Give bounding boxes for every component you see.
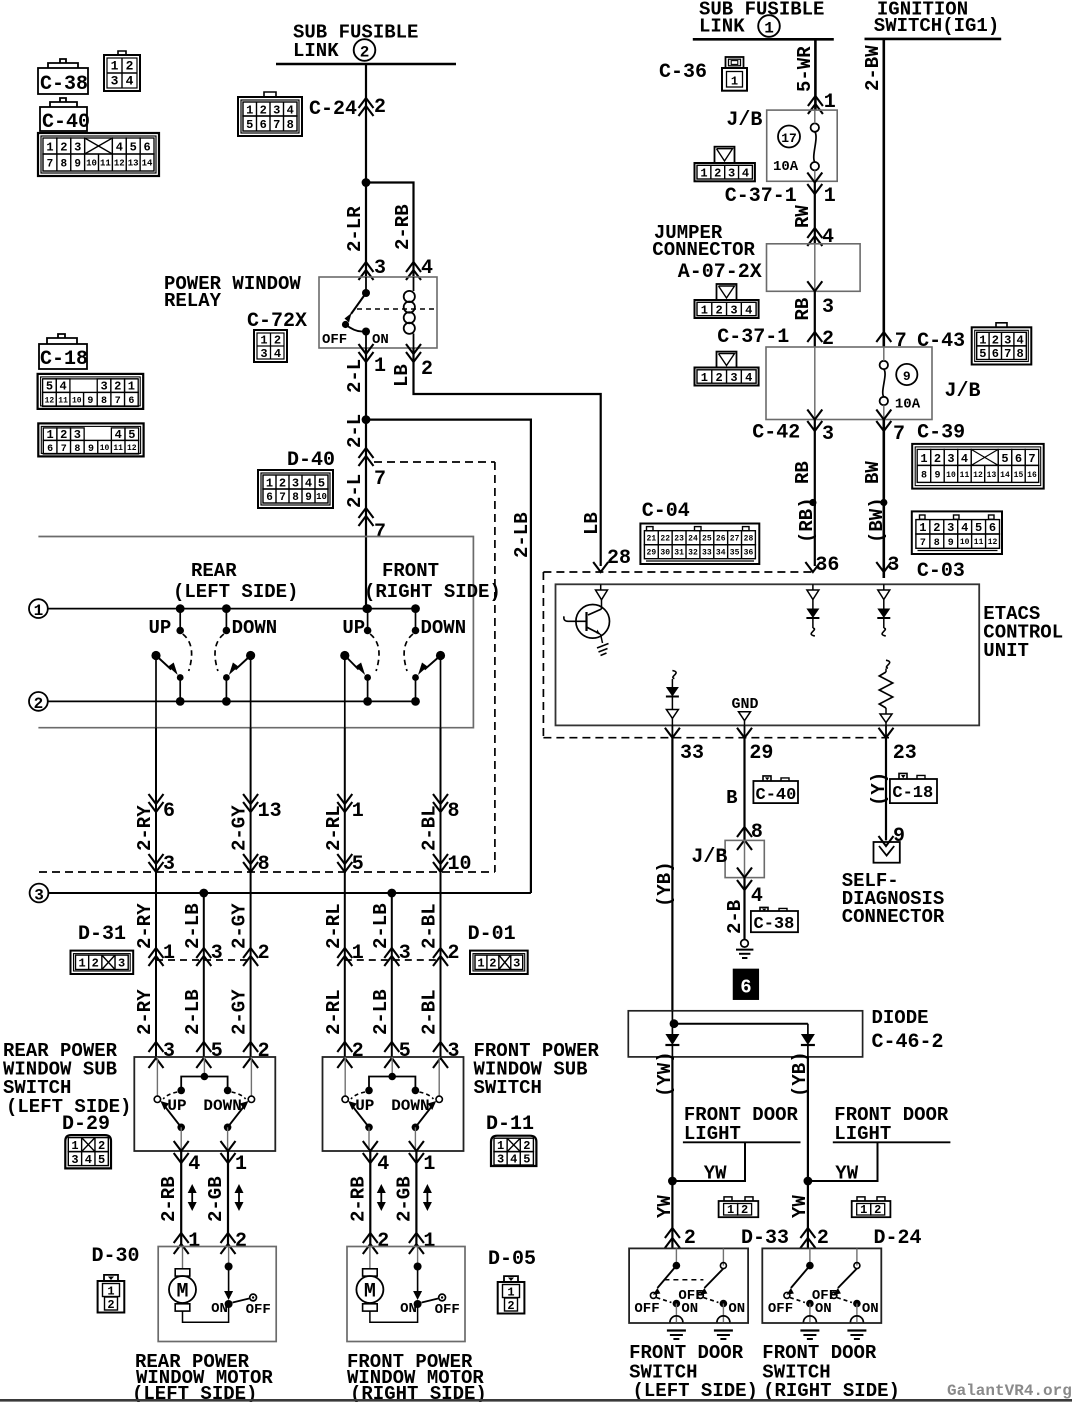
- svg-text:21: 21: [647, 535, 657, 544]
- label D-40: [287, 449, 335, 472]
- label D-05: [488, 1248, 536, 1271]
- wire 2-LB to sub switch: [391, 960, 393, 1057]
- node junction 2-L/2-LB: [362, 415, 371, 424]
- svg-text:31: 31: [674, 549, 684, 558]
- wire 2-BL to sub switch: [440, 960, 442, 1057]
- svg-text:D-30: D-30: [92, 1245, 140, 1268]
- wire 2-BL bus3 to D-31/D-01: [440, 893, 442, 960]
- front door light right lead: [808, 1142, 951, 1181]
- svg-text:5: 5: [352, 853, 364, 876]
- svg-text:1: 1: [701, 303, 708, 317]
- label D-30: [92, 1245, 140, 1268]
- svg-text:4: 4: [510, 1153, 517, 1167]
- svg-text:23: 23: [893, 742, 917, 765]
- svg-text:2: 2: [933, 521, 940, 535]
- label DIODE C-46-2: [872, 1007, 944, 1054]
- svg-text:2-GY: 2-GY: [229, 903, 251, 949]
- svg-text:1: 1: [235, 1153, 247, 1176]
- pin 28 arrow: [593, 562, 608, 572]
- label 2-RY below D-connector: [134, 989, 156, 1035]
- connector 14-pin (top-left): [38, 133, 159, 176]
- svg-text:OFF: OFF: [812, 1288, 837, 1304]
- label 2-RY upper: [134, 805, 156, 851]
- label 5-WR: [794, 46, 816, 92]
- svg-text:5: 5: [975, 521, 982, 535]
- svg-text:2: 2: [716, 303, 723, 317]
- svg-text:4: 4: [85, 1153, 92, 1167]
- pin 3 arrow below J/B9: [807, 410, 834, 447]
- svg-text:2: 2: [377, 1230, 389, 1253]
- svg-text:1: 1: [246, 103, 253, 117]
- connector D-30 icon: [98, 1275, 125, 1313]
- svg-text:4: 4: [822, 226, 834, 249]
- label RW: [792, 205, 814, 228]
- wire BW to ETACS: [882, 420, 885, 579]
- label YW left horiz: [704, 1163, 727, 1185]
- label 2-L top: [344, 359, 366, 393]
- wire pin23 stub: [885, 725, 887, 737]
- svg-text:10: 10: [316, 492, 327, 502]
- svg-text:5: 5: [318, 476, 325, 490]
- svg-text:16: 16: [1027, 471, 1037, 480]
- connector C-72X icon: [254, 330, 287, 362]
- svg-text:OFF: OFF: [678, 1288, 703, 1304]
- pin 4 arrow into relay: [406, 257, 433, 280]
- svg-text:2-LB: 2-LB: [511, 512, 533, 558]
- wire RB to ETACS: [814, 420, 816, 567]
- label J/B small: [691, 846, 727, 869]
- wire (YB) pin33 to diode box: [671, 738, 673, 1011]
- svg-text:D-01: D-01: [468, 923, 516, 946]
- svg-text:7: 7: [1028, 452, 1035, 466]
- svg-text:6: 6: [266, 492, 273, 504]
- svg-text:3: 3: [513, 957, 520, 971]
- pin 8 arrow on 2-BL: [433, 794, 460, 823]
- svg-text:2: 2: [421, 358, 433, 381]
- front power window sub switch box: [323, 1057, 464, 1151]
- svg-text:32: 32: [688, 549, 698, 558]
- label SELF-DIAGNOSIS CONNECTOR: [842, 870, 945, 928]
- wire 2-RY from master switch: [155, 728, 157, 893]
- svg-text:8: 8: [1016, 347, 1023, 361]
- splice dot BW: [880, 499, 887, 506]
- svg-text:3: 3: [730, 303, 737, 317]
- pin 3 arrow at D-connector: [196, 942, 223, 966]
- svg-text:DOWN: DOWN: [421, 617, 467, 639]
- svg-text:OFF: OFF: [435, 1302, 460, 1318]
- label 2-BW: [862, 45, 884, 91]
- label ON relay: [372, 332, 389, 348]
- wire through jumper: [814, 244, 816, 291]
- svg-text:RB: RB: [792, 461, 814, 484]
- rear power window sub switch box: [134, 1057, 275, 1151]
- svg-text:SWITCH: SWITCH: [474, 1077, 542, 1099]
- svg-text:2: 2: [60, 141, 67, 155]
- svg-text:(YB): (YB): [654, 861, 676, 907]
- svg-text:4: 4: [188, 1153, 200, 1176]
- svg-text:3: 3: [163, 1040, 175, 1063]
- svg-text:8: 8: [921, 471, 927, 482]
- svg-text:6: 6: [163, 800, 175, 823]
- svg-text:5: 5: [399, 1040, 411, 1063]
- svg-text:C-38: C-38: [40, 73, 88, 96]
- label 2-RB: [392, 204, 414, 250]
- svg-text:C-46-2: C-46-2: [872, 1031, 944, 1054]
- svg-text:2-RB: 2-RB: [347, 1176, 369, 1222]
- pin 1 arrow below relay: [359, 344, 387, 378]
- node junction YW left: [668, 1177, 677, 1186]
- bus wire 3 / 2-LB: [48, 892, 531, 894]
- svg-text:2: 2: [489, 957, 496, 971]
- svg-text:3: 3: [399, 942, 411, 965]
- connector D-31 icon: [71, 951, 134, 974]
- label C-37-1 second: [717, 326, 789, 349]
- wire 2-LB to bus3: [366, 420, 531, 893]
- pin 8 arrow on 2-GY at dashed: [243, 853, 270, 876]
- svg-text:2: 2: [126, 59, 134, 74]
- svg-text:OFF: OFF: [634, 1301, 659, 1317]
- wire LB relay to ETACS pin 28: [414, 348, 601, 566]
- svg-text:1: 1: [71, 1139, 78, 1153]
- pin 2 arrow left door switch: [665, 1227, 696, 1250]
- wire through J/B small: [744, 840, 746, 877]
- junction block J/B 17 box: [767, 110, 838, 181]
- node junction 2-LR/2-RB: [362, 178, 371, 187]
- label 2-B: [724, 900, 746, 934]
- pin 3 arrow at ETACS: [876, 562, 891, 572]
- svg-text:11: 11: [974, 538, 984, 547]
- connector A-07-2X icon: [695, 284, 759, 318]
- svg-text:15: 15: [1014, 471, 1024, 480]
- label 2-RL above D-connector: [323, 903, 345, 949]
- svg-text:D-05: D-05: [488, 1248, 536, 1271]
- pin 3 arrow on 2-RY at dashed: [149, 853, 176, 876]
- svg-text:4: 4: [116, 141, 123, 155]
- label DOWN rear: [232, 617, 278, 639]
- svg-text:3: 3: [822, 296, 834, 319]
- pin 4 arrow below J/B: [737, 868, 763, 909]
- wire 2-L to master switch: [365, 420, 367, 609]
- svg-text:CONNECTOR: CONNECTOR: [842, 906, 945, 928]
- bus wire 2: [48, 700, 416, 702]
- splice dot RB: [809, 499, 816, 506]
- wire 2-L relay to junction: [365, 348, 367, 420]
- label C-03: [917, 560, 965, 583]
- svg-text:3: 3: [111, 74, 119, 89]
- svg-text:35: 35: [730, 549, 740, 558]
- svg-text:6: 6: [1015, 452, 1022, 466]
- connector D-24 icon: [852, 1197, 891, 1217]
- svg-text:13: 13: [128, 159, 139, 169]
- label (Y): [868, 772, 890, 806]
- svg-text:OFF: OFF: [322, 332, 347, 348]
- svg-text:9: 9: [305, 492, 312, 504]
- svg-text:7: 7: [115, 396, 121, 407]
- connector C-24: [238, 92, 357, 136]
- svg-text:1: 1: [163, 942, 175, 965]
- pin 1 arrow below J/B 17: [807, 173, 836, 209]
- svg-text:J/B: J/B: [945, 380, 981, 403]
- svg-text:3: 3: [822, 423, 834, 446]
- svg-text:1: 1: [727, 1203, 734, 1217]
- svg-text:M: M: [176, 1281, 188, 1304]
- svg-text:11: 11: [100, 159, 111, 169]
- wires 2-RB/2-GB rear motor: [158, 1141, 247, 1254]
- svg-text:BW: BW: [862, 461, 884, 484]
- svg-text:2-RY: 2-RY: [134, 805, 156, 851]
- label FRONT POWER WINDOW MOTOR (RIGHT SIDE): [347, 1351, 487, 1402]
- label LB vertical: [581, 512, 603, 535]
- connector D-33 icon: [719, 1197, 759, 1217]
- connector C-40 icon right: [753, 776, 798, 805]
- svg-text:CONNECTOR: CONNECTOR: [652, 239, 755, 261]
- svg-text:2-LB: 2-LB: [182, 903, 204, 949]
- svg-text:3: 3: [947, 521, 954, 535]
- label 2-BL below D-connector: [419, 989, 441, 1035]
- label D-33: [741, 1227, 789, 1250]
- svg-text:2-RB: 2-RB: [158, 1176, 180, 1222]
- node circle 1: [29, 599, 48, 620]
- svg-text:2: 2: [34, 695, 44, 713]
- label 2-L lower: [344, 474, 366, 508]
- fuse 9 in J/B: [880, 347, 921, 420]
- svg-text:8: 8: [101, 396, 107, 407]
- svg-text:2-BL: 2-BL: [419, 989, 441, 1035]
- switch front up: [340, 604, 379, 728]
- connector 12-pin A (left): [38, 374, 144, 409]
- wire 5-WR: [814, 39, 817, 110]
- svg-text:14: 14: [142, 159, 153, 169]
- svg-text:DIODE: DIODE: [872, 1007, 929, 1029]
- pin 13 arrow on 2-GY: [243, 794, 282, 823]
- svg-text:UNIT: UNIT: [983, 640, 1029, 662]
- svg-text:1: 1: [423, 1153, 435, 1176]
- connector C-39 icon: [912, 444, 1043, 489]
- svg-text:2-RL: 2-RL: [323, 989, 345, 1035]
- rear power window motor M: [158, 1247, 276, 1342]
- switch front down: [404, 604, 445, 728]
- svg-text:(RIGHT SIDE): (RIGHT SIDE): [364, 581, 501, 603]
- power rail sub fusible link 2: [276, 63, 456, 66]
- svg-text:2-B: 2-B: [724, 900, 746, 934]
- svg-text:1: 1: [477, 957, 484, 971]
- svg-text:B: B: [726, 787, 737, 809]
- label (YB): [654, 861, 676, 907]
- label 36: [815, 554, 839, 577]
- label 2-BL above D-connector: [419, 903, 441, 949]
- svg-text:YW: YW: [789, 1195, 811, 1218]
- power rail ignition switch: [865, 38, 1002, 41]
- junction block J/B small box: [725, 840, 764, 877]
- pin 2 arrow at C-24: [359, 96, 387, 119]
- pin 5 arrow into sub switch: [196, 1040, 223, 1068]
- label FRONT DOOR LIGHT right: [834, 1104, 949, 1145]
- svg-text:5: 5: [1001, 452, 1008, 466]
- label D-24: [874, 1227, 922, 1250]
- pin 6 arrow on 2-RY: [149, 794, 176, 823]
- label (RB): [796, 497, 818, 543]
- diode right C-46-2: [801, 1024, 815, 1057]
- svg-text:1: 1: [46, 141, 53, 155]
- wire 2-B: [743, 878, 745, 939]
- svg-text:ON: ON: [728, 1301, 745, 1317]
- wire 2-RY to sub switch: [155, 960, 157, 1057]
- svg-text:1: 1: [34, 602, 44, 620]
- svg-text:5-WR: 5-WR: [794, 46, 816, 92]
- svg-text:2-GB: 2-GB: [205, 1176, 227, 1222]
- svg-text:UP: UP: [167, 1097, 186, 1115]
- connector C-38 (left): [38, 59, 88, 96]
- label (RIGHT SIDE): [364, 581, 501, 603]
- svg-text:29: 29: [647, 549, 657, 558]
- svg-text:9: 9: [934, 471, 940, 482]
- svg-text:8: 8: [74, 444, 80, 455]
- svg-text:23: 23: [674, 535, 684, 544]
- svg-text:J/B: J/B: [726, 109, 762, 132]
- svg-text:2-BW: 2-BW: [862, 45, 884, 91]
- pin 1 arrow at D-connector: [337, 942, 364, 966]
- svg-text:7: 7: [1004, 347, 1011, 361]
- svg-text:4: 4: [745, 371, 752, 385]
- svg-text:2: 2: [817, 1227, 829, 1250]
- relay C-72X box: [319, 277, 437, 348]
- front door switch right box: [762, 1248, 881, 1339]
- svg-text:11: 11: [113, 444, 123, 453]
- label REAR POWER WINDOW MOTOR (LEFT SIDE): [132, 1351, 273, 1402]
- ETACS pin 28 marker: [596, 584, 608, 600]
- svg-text:5: 5: [211, 1040, 223, 1063]
- svg-text:C-37-1: C-37-1: [725, 185, 797, 208]
- svg-text:11: 11: [58, 396, 68, 405]
- svg-text:6: 6: [128, 396, 134, 407]
- svg-text:2-BL: 2-BL: [419, 903, 441, 949]
- svg-text:C-42: C-42: [752, 422, 800, 445]
- node circle 2: [29, 692, 48, 713]
- svg-text:10A: 10A: [773, 159, 799, 175]
- svg-text:1: 1: [860, 1203, 867, 1217]
- svg-text:DOWN: DOWN: [203, 1097, 241, 1115]
- svg-text:YW: YW: [654, 1195, 676, 1218]
- svg-text:9: 9: [948, 538, 954, 549]
- label J/B 17: [726, 109, 762, 132]
- svg-text:2: 2: [258, 1040, 270, 1063]
- svg-text:6: 6: [260, 118, 267, 132]
- svg-text:1: 1: [352, 800, 364, 823]
- svg-text:4: 4: [305, 476, 312, 490]
- pin 23 arrow: [879, 728, 917, 765]
- front door light left lead: [672, 1142, 800, 1181]
- svg-text:1: 1: [919, 521, 926, 535]
- svg-text:1: 1: [764, 20, 774, 38]
- wire RW: [814, 181, 816, 244]
- svg-text:1: 1: [260, 334, 267, 348]
- relay coil: [404, 277, 415, 348]
- svg-text:26: 26: [716, 535, 726, 544]
- pin 29 arrow: [737, 728, 773, 765]
- svg-text:(RIGHT SIDE): (RIGHT SIDE): [763, 1380, 900, 1402]
- svg-text:3: 3: [273, 103, 280, 117]
- connector D-40 icon: [258, 470, 333, 508]
- label UP front: [342, 617, 365, 639]
- svg-text:8: 8: [448, 800, 460, 823]
- wire 2-LR from link to relay: [365, 64, 367, 277]
- svg-text:D-40: D-40: [287, 449, 335, 472]
- svg-text:17: 17: [781, 131, 797, 146]
- wire (YW) to left door switch: [671, 1057, 673, 1249]
- svg-text:YW: YW: [835, 1163, 858, 1185]
- wire 2-RL to sub switch: [344, 960, 346, 1057]
- connector 2x2 (top-left): [104, 51, 140, 91]
- svg-text:REAR: REAR: [191, 560, 237, 582]
- pin 3 arrow at D-connector: [384, 942, 411, 966]
- svg-text:D-31: D-31: [78, 923, 126, 946]
- svg-text:7: 7: [47, 158, 54, 170]
- svg-text:7: 7: [61, 444, 67, 455]
- wire B pin29 to J/B: [743, 738, 745, 841]
- diode left C-46-2: [665, 1011, 679, 1057]
- svg-text:6: 6: [47, 444, 53, 455]
- svg-text:ON: ON: [211, 1301, 228, 1317]
- svg-text:6: 6: [989, 521, 996, 535]
- svg-text:C-24: C-24: [309, 98, 357, 121]
- svg-text:D-11: D-11: [486, 1113, 534, 1136]
- svg-text:D-33: D-33: [741, 1227, 789, 1250]
- svg-text:C-38: C-38: [754, 915, 795, 934]
- svg-text:2: 2: [114, 380, 121, 394]
- ETACS diode at pin 33: [666, 671, 679, 726]
- svg-text:2-RL: 2-RL: [323, 903, 345, 949]
- connector C-37-1 icon B: [695, 352, 759, 386]
- switch rear up: [151, 604, 191, 728]
- svg-text:5: 5: [246, 118, 253, 132]
- svg-text:C-39: C-39: [917, 422, 965, 445]
- svg-text:2-RL: 2-RL: [323, 805, 345, 851]
- connector D-29 icon: [65, 1135, 111, 1168]
- svg-text:10: 10: [72, 396, 82, 405]
- label 2-L mid: [344, 414, 366, 448]
- wire pin29 stub: [744, 725, 746, 737]
- front power window motor M: [347, 1247, 465, 1342]
- svg-text:28: 28: [744, 535, 754, 544]
- label JUMPER CONNECTOR A-07-2X: [652, 222, 761, 284]
- pin 3 arrow into sub switch: [433, 1040, 460, 1068]
- svg-text:2: 2: [107, 1298, 114, 1312]
- svg-text:LB: LB: [581, 512, 603, 535]
- svg-text:24: 24: [688, 535, 698, 544]
- svg-text:8: 8: [292, 492, 299, 504]
- svg-text:DOWN: DOWN: [391, 1097, 429, 1115]
- svg-text:12: 12: [45, 396, 55, 405]
- svg-text:UP: UP: [355, 1097, 374, 1115]
- svg-text:1: 1: [352, 942, 364, 965]
- pin 2 arrow at D-connector: [243, 942, 270, 966]
- label 2-BL upper: [419, 805, 441, 851]
- svg-text:9: 9: [74, 158, 81, 170]
- svg-text:(YB): (YB): [789, 1051, 811, 1097]
- connector D-05 icon: [498, 1276, 525, 1313]
- svg-text:3: 3: [448, 1040, 460, 1063]
- svg-text:10: 10: [86, 159, 97, 169]
- wires 2-RB/2-GB front motor: [347, 1141, 435, 1254]
- label (BW): [866, 497, 888, 543]
- power rail sub fusible link 1: [693, 38, 834, 41]
- wire 2-RL from master switch: [344, 728, 346, 893]
- svg-text:5: 5: [523, 1153, 530, 1167]
- label REAR POWER WINDOW SUB SWITCH (LEFT SIDE): [3, 1040, 131, 1118]
- svg-text:8: 8: [61, 158, 68, 170]
- svg-text:M: M: [364, 1281, 376, 1304]
- svg-text:27: 27: [730, 535, 740, 544]
